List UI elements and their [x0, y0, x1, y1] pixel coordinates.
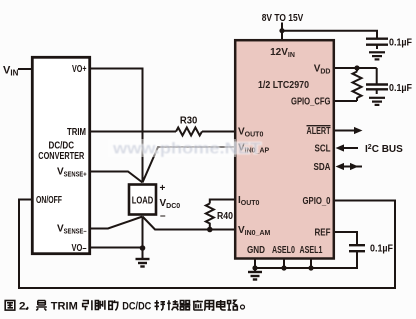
svg-text:ASEL1: ASEL1: [300, 245, 323, 256]
svg-text:www.phome.NET: www.phome.NET: [112, 141, 261, 158]
svg-text:VIN: VIN: [3, 65, 19, 78]
svg-text:ALERT: ALERT: [307, 126, 331, 137]
svg-text:DC/DC: DC/DC: [122, 301, 151, 313]
svg-text:2: 2: [19, 301, 26, 313]
svg-text:0.1µF: 0.1µF: [389, 37, 412, 48]
svg-text:REF: REF: [315, 227, 331, 238]
svg-text:I2C BUS: I2C BUS: [365, 144, 403, 155]
svg-text:LOAD: LOAD: [132, 196, 154, 207]
svg-text:VDC0: VDC0: [160, 198, 181, 210]
svg-text:ASEL0: ASEL0: [272, 245, 295, 256]
svg-text:VO–: VO–: [72, 243, 87, 254]
svg-text:1/2 LTC2970: 1/2 LTC2970: [258, 80, 309, 91]
svg-text:GND: GND: [247, 245, 265, 256]
svg-text:TRIM: TRIM: [67, 127, 86, 138]
svg-text:VO+: VO+: [72, 64, 87, 75]
svg-text:SCL: SCL: [315, 143, 331, 154]
svg-text:+: +: [160, 183, 166, 194]
svg-text:8V TO 15V: 8V TO 15V: [262, 13, 304, 24]
svg-text:DC/DC: DC/DC: [49, 141, 75, 152]
svg-text:SDA: SDA: [314, 162, 331, 173]
svg-text:GPIO_CFG: GPIO_CFG: [291, 96, 331, 107]
svg-text:ON/OFF: ON/OFF: [36, 195, 62, 206]
svg-text:R30: R30: [180, 116, 198, 127]
svg-text:0.1µF: 0.1µF: [370, 243, 393, 254]
svg-text:–: –: [160, 211, 166, 222]
svg-text:GPIO_0: GPIO_0: [303, 196, 331, 207]
svg-text:R40: R40: [217, 211, 233, 222]
svg-text:0.1µF: 0.1µF: [389, 83, 412, 94]
svg-text:CONVERTER: CONVERTER: [38, 151, 85, 162]
svg-text:TRIM: TRIM: [51, 301, 78, 313]
